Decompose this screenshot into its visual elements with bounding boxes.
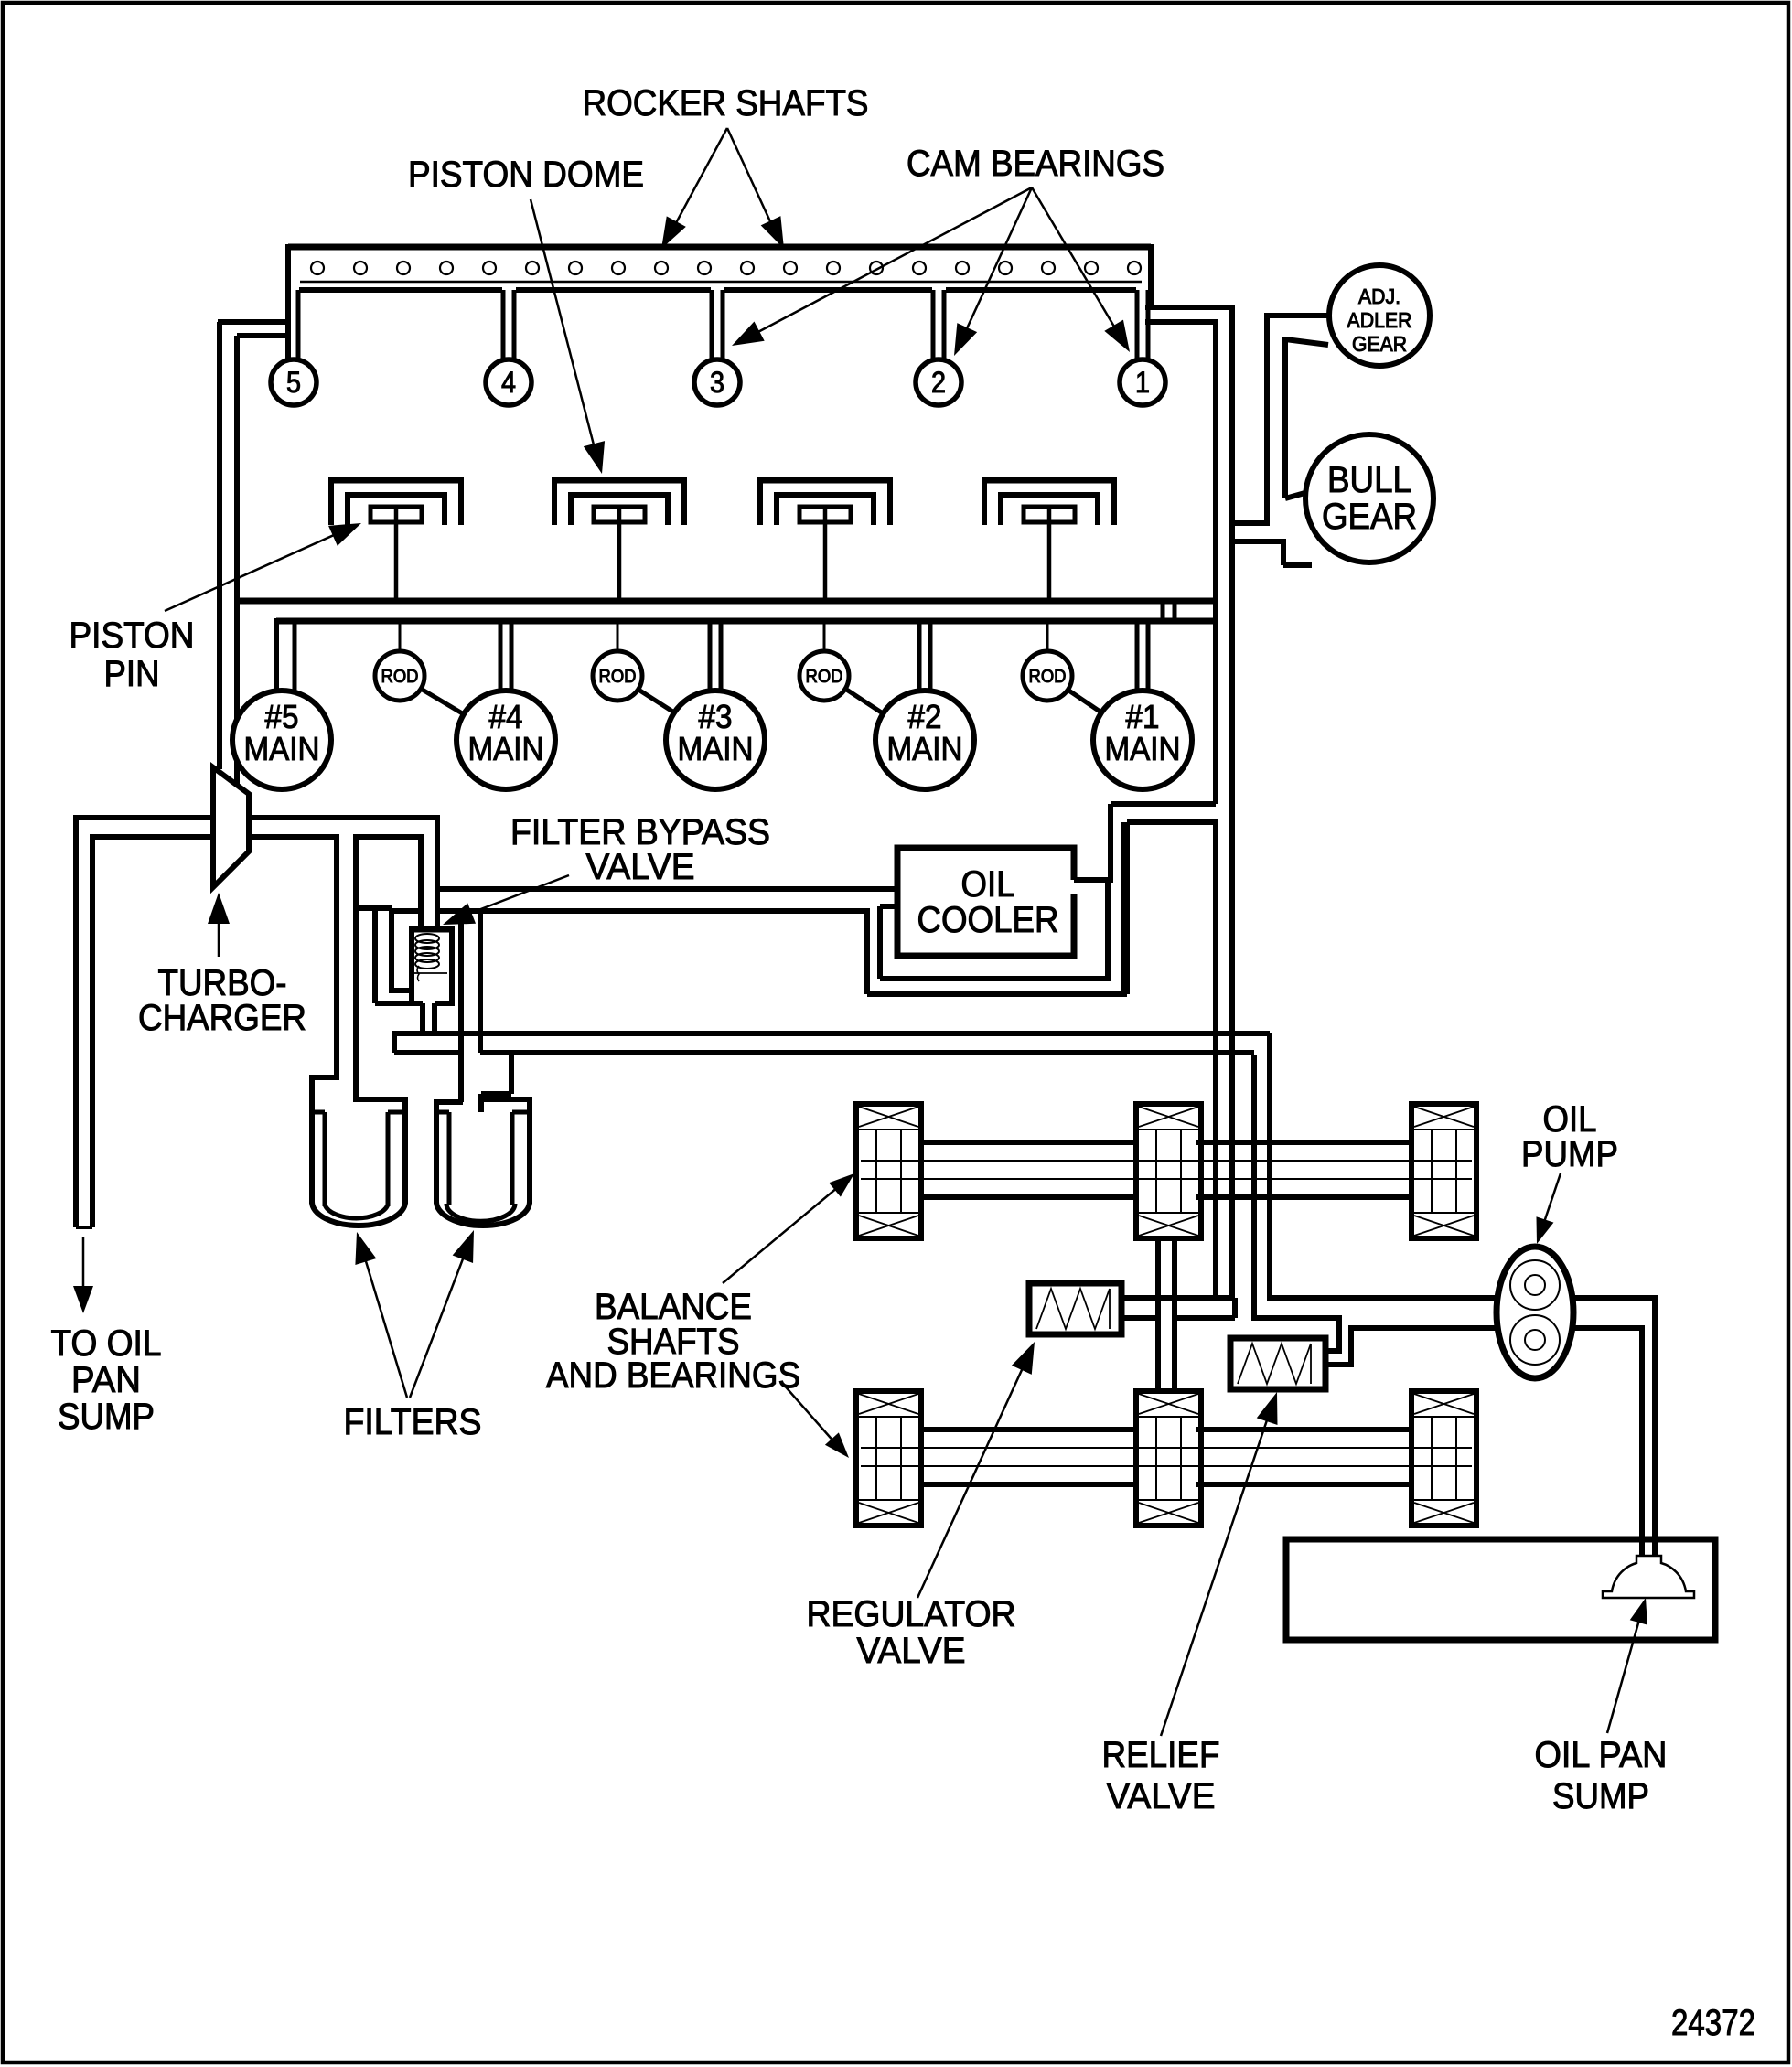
svg-text:PISTON DOME: PISTON DOME bbox=[408, 155, 644, 195]
piston pin 3 bbox=[799, 507, 851, 522]
svg-text:2: 2 bbox=[931, 366, 946, 399]
left filter feed pipes bbox=[334, 834, 339, 1080]
svg-text:PUMP: PUMP bbox=[1521, 1134, 1618, 1174]
leader arrow regulator valve bbox=[917, 1350, 1031, 1598]
main bearing #1 bbox=[1093, 691, 1192, 789]
oil pump outlet pipe bbox=[1573, 1298, 1655, 1541]
main bearing #2 drop pipe bbox=[917, 621, 922, 692]
svg-text:MAIN: MAIN bbox=[468, 730, 544, 767]
pipe rocker to main vertical bbox=[1145, 305, 1232, 310]
cam bearing 5 drop pipe bbox=[285, 290, 291, 360]
rod 4 link wire bbox=[1068, 690, 1101, 712]
svg-text:5: 5 bbox=[286, 366, 301, 399]
svg-text:VALVE: VALVE bbox=[586, 847, 695, 887]
regulator valve bbox=[1029, 1283, 1121, 1334]
main return step bbox=[1111, 801, 1216, 807]
cam bearing 5 bbox=[271, 359, 317, 405]
rod 2 link wire bbox=[638, 690, 674, 712]
leader arrow oil pump bbox=[1540, 1173, 1561, 1236]
piston pin 2 bbox=[594, 507, 645, 522]
balance shaft 1 left bearing bbox=[856, 1104, 921, 1238]
svg-text:RELIEF: RELIEF bbox=[1102, 1735, 1220, 1775]
rocker shaft oil holes bbox=[311, 262, 1141, 274]
piston pin 4 bbox=[1024, 507, 1075, 522]
relief valve bbox=[1230, 1338, 1325, 1389]
cam bearing 3 drop pipe bbox=[710, 290, 714, 360]
oil cooler inner loop bbox=[880, 904, 897, 909]
svg-text:SUMP: SUMP bbox=[58, 1397, 155, 1437]
svg-text:GEAR: GEAR bbox=[1322, 497, 1417, 537]
vertical pipe pair B bbox=[1251, 1055, 1257, 1321]
balance shaft 1 bbox=[921, 1140, 1136, 1145]
svg-text:CHARGER: CHARGER bbox=[138, 998, 306, 1038]
svg-text:PAN: PAN bbox=[71, 1360, 141, 1400]
svg-text:OIL PAN: OIL PAN bbox=[1535, 1735, 1668, 1775]
main gallery manifold bbox=[276, 618, 1216, 625]
oil pump body bbox=[1497, 1247, 1573, 1378]
svg-text:PISTON: PISTON bbox=[70, 616, 195, 656]
rod bearing 2 bbox=[593, 651, 642, 701]
leader lines balance shafts bbox=[723, 1183, 843, 1283]
oil pickup bell bbox=[1603, 1556, 1694, 1598]
main bearing #5 bbox=[232, 691, 331, 789]
rod bearing 4 bbox=[1023, 651, 1072, 701]
filter bypass valve chamber bbox=[356, 905, 392, 911]
bull gear bbox=[1305, 434, 1433, 562]
svg-text:MAIN: MAIN bbox=[1105, 730, 1181, 767]
piston rod 2 wire bbox=[617, 509, 622, 601]
svg-text:ADLER: ADLER bbox=[1347, 308, 1412, 332]
pipe to oil pan sump (left vertical) bbox=[73, 815, 79, 1227]
svg-text:SUMP: SUMP bbox=[1552, 1776, 1649, 1816]
svg-text:ROCKER SHAFTS: ROCKER SHAFTS bbox=[583, 83, 869, 123]
oil pump inlet pipe bbox=[1270, 1295, 1497, 1301]
svg-text:BULL: BULL bbox=[1327, 460, 1411, 500]
regulator valve pipe bbox=[1121, 1295, 1235, 1301]
main bearing #5 drop pipe bbox=[274, 618, 279, 692]
balance shaft 2 bbox=[921, 1427, 1136, 1432]
main bearing #3 drop pipe bbox=[708, 621, 713, 692]
rod 3 link wire bbox=[845, 689, 883, 713]
piston rod 4 wire bbox=[1047, 509, 1052, 601]
oil pump gears bbox=[1510, 1260, 1560, 1310]
svg-text:MAIN: MAIN bbox=[887, 730, 963, 767]
turbocharger funnel bbox=[213, 767, 249, 887]
right filter can bbox=[436, 1101, 463, 1103]
svg-text:ROD: ROD bbox=[381, 667, 419, 687]
main bearing #4 bbox=[456, 691, 555, 789]
balance shaft 2 left bearing bbox=[856, 1391, 921, 1526]
piston rod 1 wire bbox=[394, 509, 399, 601]
piston dome 4 bbox=[982, 477, 1117, 525]
cam bearing 2 bbox=[916, 359, 961, 405]
balance shaft 1 center bearing bbox=[1136, 1104, 1201, 1238]
filtered oil pipe to junction bbox=[392, 1031, 1270, 1036]
piston rod 3 wire bbox=[823, 509, 828, 601]
leader arrow relief valve bbox=[1161, 1401, 1273, 1736]
svg-text:VALVE: VALVE bbox=[1107, 1776, 1216, 1816]
main bearing #3 bbox=[666, 691, 765, 789]
svg-text:PIN: PIN bbox=[104, 654, 160, 694]
oil cooler outlet bbox=[1074, 877, 1111, 883]
svg-text:OIL: OIL bbox=[961, 864, 1015, 905]
pipe adj adler gear feed bbox=[1267, 313, 1330, 318]
oil cooler box bbox=[897, 848, 1074, 956]
cam bearing 2 drop pipe bbox=[931, 290, 936, 360]
oil cooler feed pipe bbox=[437, 886, 897, 892]
svg-text:ROD: ROD bbox=[1029, 667, 1067, 687]
rod bearing 1 bbox=[375, 651, 424, 701]
rocker shaft bar bbox=[288, 244, 1151, 358]
balance shaft 1 right bearing bbox=[1411, 1104, 1476, 1238]
rod bearing 3 bbox=[799, 651, 849, 701]
relief valve outlet pipe bbox=[1254, 1318, 1339, 1351]
balance shaft 2 center bearing bbox=[1136, 1391, 1201, 1526]
svg-text:COOLER: COOLER bbox=[917, 900, 1059, 940]
filter bypass valve body bbox=[412, 926, 452, 933]
rod 1 link wire bbox=[421, 689, 464, 714]
right filter feed bbox=[478, 911, 483, 1053]
leader arrow to oil pan sump bbox=[82, 1237, 85, 1304]
main bearing #4 drop pipe bbox=[499, 621, 503, 692]
oil cooler outer loop bbox=[864, 908, 870, 994]
oil pan sump box bbox=[1286, 1539, 1715, 1640]
svg-text:1: 1 bbox=[1135, 366, 1150, 399]
svg-text:MAIN: MAIN bbox=[244, 730, 320, 767]
cam bearing 1 drop pipe bbox=[1135, 290, 1140, 360]
pipe engine to turbo (horizontal) bbox=[76, 815, 213, 820]
svg-text:AND BEARINGS: AND BEARINGS bbox=[546, 1355, 800, 1396]
filter feed downpipe bbox=[418, 834, 424, 932]
svg-text:ADJ.: ADJ. bbox=[1358, 284, 1400, 308]
svg-text:ROD: ROD bbox=[806, 667, 843, 687]
svg-text:REGULATOR: REGULATOR bbox=[807, 1594, 1016, 1634]
cam bearing 1 bbox=[1120, 359, 1165, 405]
piston dome 3 bbox=[757, 477, 893, 525]
pipe bull gear feed bbox=[1230, 520, 1267, 526]
cam bearing 4 bbox=[486, 359, 531, 405]
engine block left gallery pipe bbox=[218, 319, 288, 325]
svg-text:24372: 24372 bbox=[1671, 2003, 1755, 2043]
leader arrows cam bearings bbox=[737, 187, 1126, 350]
svg-text:GEAR: GEAR bbox=[1352, 332, 1407, 356]
engine block bottom bbox=[237, 598, 1217, 605]
leader arrow oil pan sump bbox=[1607, 1607, 1643, 1733]
rod bearing 4 wire bbox=[1046, 621, 1049, 652]
leader arrow piston pin bbox=[165, 527, 352, 611]
leader arrow filter bypass valve bbox=[450, 875, 569, 921]
svg-text:MAIN: MAIN bbox=[678, 730, 754, 767]
leader arrow turbocharger bbox=[218, 902, 220, 957]
rod bearing 2 wire bbox=[617, 621, 619, 652]
oil pickup stem bbox=[1639, 1539, 1645, 1558]
filter bypass valve spring bbox=[415, 934, 439, 969]
svg-text:ROD: ROD bbox=[599, 667, 637, 687]
rod bearing 3 wire bbox=[823, 621, 826, 652]
piston pin 1 bbox=[370, 507, 422, 522]
cam bearing 4 drop pipe bbox=[501, 290, 506, 360]
leader arrows filters bbox=[359, 1240, 407, 1398]
leader arrow piston dome bbox=[531, 199, 596, 455]
svg-text:TO OIL: TO OIL bbox=[51, 1323, 162, 1364]
bypass valve outlet neck bbox=[420, 1003, 425, 1036]
piston dome 2 bbox=[552, 477, 687, 525]
rod bearing 1 wire bbox=[399, 621, 402, 652]
cam bearing 3 bbox=[694, 359, 740, 405]
main bearing #1 drop pipe bbox=[1135, 621, 1140, 692]
left filter can bbox=[312, 1075, 337, 1080]
balance shaft feed pipe bbox=[1155, 1238, 1161, 1391]
svg-text:CAM BEARINGS: CAM BEARINGS bbox=[907, 144, 1164, 184]
block to manifold stub bbox=[1161, 601, 1165, 621]
svg-text:4: 4 bbox=[501, 366, 516, 399]
svg-text:3: 3 bbox=[710, 366, 724, 399]
main bearing #2 bbox=[875, 691, 974, 789]
svg-text:FILTERS: FILTERS bbox=[344, 1402, 482, 1442]
leader arrows rocker shafts bbox=[665, 128, 780, 243]
adj adler gear bbox=[1329, 265, 1430, 366]
balance shaft 2 right bearing bbox=[1411, 1391, 1476, 1526]
svg-text:VALVE: VALVE bbox=[857, 1631, 966, 1671]
piston dome 1 bbox=[328, 477, 464, 525]
